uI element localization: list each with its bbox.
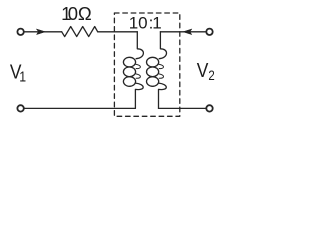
wire resistor to primary [98, 31, 138, 33]
wire top-left [24, 31, 62, 33]
terminal bottom-left [17, 105, 23, 111]
terminal top-left [17, 29, 23, 35]
arrow current into secondary [183, 29, 192, 35]
winding secondary L2 [147, 32, 167, 109]
transformer dashed box [114, 13, 179, 116]
wire top-right [160, 31, 206, 33]
winding primary L1 [123, 32, 143, 109]
svg-text:10:1: 10:1 [129, 13, 162, 32]
wire bottom-right [159, 107, 207, 109]
arrow current into primary [37, 29, 46, 35]
terminal bottom-right [206, 105, 212, 111]
svg-text:10Ω: 10Ω [61, 3, 92, 24]
svg-text:V2: V2 [197, 60, 215, 84]
resistor R 10ohm [62, 27, 98, 37]
svg-text:V1: V1 [10, 61, 26, 84]
terminal top-right [206, 29, 212, 35]
wire bottom-left [24, 107, 136, 109]
